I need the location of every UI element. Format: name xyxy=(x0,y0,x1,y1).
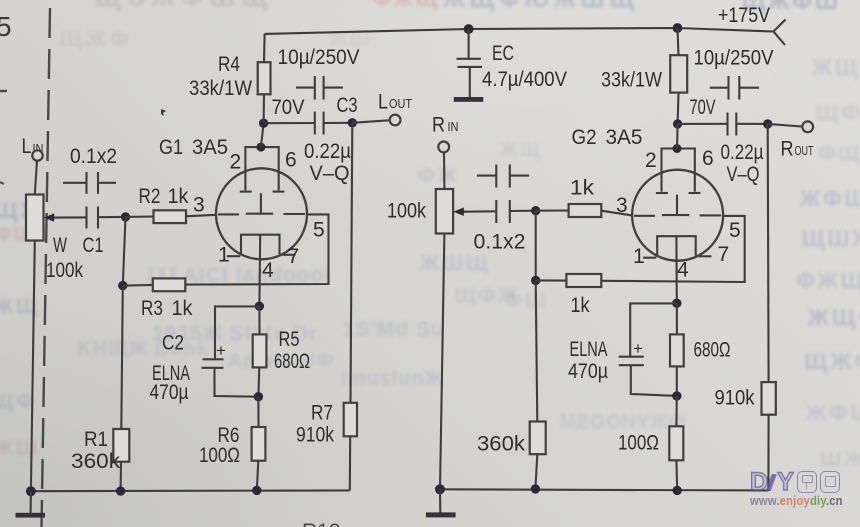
node D right xyxy=(672,391,681,400)
svg-text:1k: 1k xyxy=(172,297,193,320)
svg-text:L: L xyxy=(22,135,32,158)
node R OUT junction xyxy=(763,119,772,128)
resistor R1 360k xyxy=(71,428,129,473)
svg-text:OUT: OUT xyxy=(795,143,814,158)
terminal L OUT xyxy=(378,91,412,126)
node L OUT junction xyxy=(348,118,357,127)
svg-text:R3: R3 xyxy=(141,297,163,320)
svg-text:360k: 360k xyxy=(477,433,526,456)
svg-text:4.7µ/400V: 4.7µ/400V xyxy=(482,68,567,91)
ground bus left channel xyxy=(31,489,350,492)
svg-text:C2: C2 xyxy=(162,332,184,355)
svg-text:0.1x2: 0.1x2 xyxy=(474,231,526,254)
svg-text:680Ω: 680Ω xyxy=(274,350,310,373)
capacitor 10u/250V (upper, parallel with C3) xyxy=(278,46,360,100)
svg-text:5: 5 xyxy=(729,219,741,242)
svg-text:100k: 100k xyxy=(46,259,83,282)
node D (R5/R6/C2 junction) xyxy=(254,392,263,401)
svg-text:R: R xyxy=(432,114,445,137)
svg-text:G1: G1 xyxy=(159,136,183,159)
capacitor C2 ELNA 470u xyxy=(150,306,260,404)
svg-text:0.22µ: 0.22µ xyxy=(304,140,351,163)
wire node A down to node B xyxy=(123,217,126,286)
capacitor EC 4.7u/400V xyxy=(457,29,568,97)
ground symbol EC xyxy=(454,97,483,102)
terminal R IN xyxy=(432,114,459,153)
svg-text:ELNA: ELNA xyxy=(570,338,608,361)
resistor 100ohm right xyxy=(618,396,683,491)
ink speck xyxy=(161,109,166,116)
resistor R6 100ohm xyxy=(199,397,265,491)
svg-text:1k: 1k xyxy=(168,185,189,208)
svg-text:IN: IN xyxy=(448,119,459,134)
svg-text:R10: R10 xyxy=(302,520,341,527)
wire node B to R3 xyxy=(123,284,153,287)
wire node to 1k right xyxy=(536,209,569,211)
svg-text:100k: 100k xyxy=(387,200,426,223)
ground symbol right xyxy=(426,489,456,517)
svg-text:+: + xyxy=(633,339,643,358)
svg-text:V–Q: V–Q xyxy=(310,162,350,185)
svg-text:0.1x2: 0.1x2 xyxy=(70,145,117,168)
svg-text:3: 3 xyxy=(193,194,205,217)
node A (C1/R2/R3 junction) xyxy=(121,212,130,221)
wire potentiometer bottom to ground bus xyxy=(31,241,35,492)
resistor 360k right xyxy=(477,422,546,456)
stray margin mark xyxy=(0,90,7,93)
wire junction down to R7 xyxy=(351,123,353,403)
node A right xyxy=(531,206,540,215)
svg-text:1: 1 xyxy=(633,245,645,268)
terminal R OUT xyxy=(781,121,814,160)
svg-text:4: 4 xyxy=(677,259,689,282)
wire L IN to potentiometer xyxy=(35,161,37,195)
wire R IN to potentiometer right xyxy=(443,152,445,189)
node bus/360k right xyxy=(531,484,540,493)
svg-text:R7: R7 xyxy=(311,402,333,425)
node rail/EC xyxy=(464,24,474,34)
wire anode node to C3 xyxy=(264,122,315,124)
node B (R3 junction) xyxy=(118,281,127,290)
ground bus right channel xyxy=(440,489,768,490)
svg-text:910k: 910k xyxy=(715,387,755,410)
svg-text:0.22µ: 0.22µ xyxy=(721,141,764,164)
svg-text:7: 7 xyxy=(288,245,300,268)
wire cap to R OUT junction xyxy=(736,123,767,125)
svg-text:V–Q: V–Q xyxy=(727,163,760,186)
svg-text:C3: C3 xyxy=(337,94,358,117)
capacitor 0.22u V-Q right xyxy=(690,96,764,186)
wire potentiometer right bottom to ground bus xyxy=(440,234,444,490)
wire 1k lower to grid pin 5 riser right xyxy=(601,216,744,282)
resistor 33k/1W right xyxy=(601,28,687,124)
tube G1 3A5 envelope xyxy=(159,136,307,259)
capacitor ELNA 470u right xyxy=(568,303,677,396)
svg-text:5: 5 xyxy=(0,11,12,42)
dashed page cut line xyxy=(42,8,51,527)
resistor 1k right (grid stopper) xyxy=(569,177,602,218)
resistor 680ohm right xyxy=(670,303,731,396)
wire R OUT junction down to 910k xyxy=(767,124,770,382)
node C (filament tap / R5 / C2) xyxy=(255,302,264,311)
resistor R7 910k xyxy=(296,402,357,447)
svg-text:360k: 360k xyxy=(71,450,121,473)
svg-text:70V: 70V xyxy=(690,96,716,119)
node bus/pot right xyxy=(435,484,445,494)
svg-text:470µ: 470µ xyxy=(568,360,608,383)
svg-text:6: 6 xyxy=(285,149,297,172)
wire filament centre tap pin 4 down to cathode node xyxy=(258,235,261,307)
svg-text:R: R xyxy=(781,138,794,161)
wire node A to R2 xyxy=(126,215,154,217)
svg-text:R5: R5 xyxy=(279,328,300,351)
svg-text:33k/1W: 33k/1W xyxy=(601,69,662,92)
capacitor 10u/250V right (upper) xyxy=(694,47,774,100)
svg-text:70V: 70V xyxy=(272,96,305,119)
svg-text:1k: 1k xyxy=(570,177,595,200)
wire R2 to grid pin 3 xyxy=(186,215,216,217)
wire filament centre tap down to cathode node right xyxy=(675,236,677,303)
node bus/R6 xyxy=(252,486,261,495)
node rail/33k xyxy=(673,23,683,33)
svg-text:G2: G2 xyxy=(572,126,597,149)
svg-text:R4: R4 xyxy=(218,53,240,76)
svg-text:10µ/250V: 10µ/250V xyxy=(278,46,360,69)
wire node B right to 1k lower xyxy=(536,279,567,281)
resistor R3 1k xyxy=(141,278,193,320)
svg-text:EC: EC xyxy=(492,42,514,65)
node anode/coupling junction xyxy=(259,119,268,128)
terminal L IN xyxy=(22,135,44,161)
anode bracket pins 2,6 right xyxy=(645,147,714,193)
svg-text:4: 4 xyxy=(262,259,274,282)
resistor 1k right (grid leak) xyxy=(566,274,601,317)
filament pins 1,7,4 right xyxy=(633,236,729,281)
node anode junction right xyxy=(673,119,682,128)
wire C3 to output junction xyxy=(324,122,353,124)
tube G2 3A5 envelope xyxy=(572,126,724,261)
capacitor 0.1x2 right (lower unit, in signal path) xyxy=(464,200,536,254)
potentiometer W 100k xyxy=(26,195,83,283)
filament pins 1,7,4 xyxy=(218,235,299,282)
svg-text:680Ω: 680Ω xyxy=(694,339,731,362)
svg-text:6: 6 xyxy=(702,147,714,170)
node B right xyxy=(531,276,540,285)
svg-text:2: 2 xyxy=(230,151,242,174)
node bus/100ohm right xyxy=(673,486,682,495)
svg-text:W: W xyxy=(53,234,67,257)
wire 1k to grid pin 3 right xyxy=(601,211,632,216)
svg-text:10µ/250V: 10µ/250V xyxy=(694,47,774,70)
ground symbol left xyxy=(16,491,46,517)
grid structure right (dashed) with stub xyxy=(634,195,721,216)
potentiometer 100k right xyxy=(387,189,466,234)
svg-text:470µ: 470µ xyxy=(150,381,189,404)
svg-text:100Ω: 100Ω xyxy=(199,444,240,467)
svg-text:910k: 910k xyxy=(296,424,334,447)
svg-text:C1: C1 xyxy=(83,234,104,257)
wire R7 to ground bus xyxy=(349,436,352,490)
wire 360k to ground bus right xyxy=(535,454,537,489)
resistor R5 680ohm xyxy=(253,306,310,397)
wire junction to L OUT terminal xyxy=(352,120,389,123)
+175V power rail xyxy=(265,4,786,45)
capacitor 0.1x2 right (upper unit) xyxy=(477,165,529,188)
svg-text:2: 2 xyxy=(645,149,657,172)
resistor R4 33k/1W xyxy=(189,34,271,123)
capacitor C1 0.1x2 (lower unit, in signal path) xyxy=(54,145,126,257)
capacitor C3 0.22u V-Q xyxy=(272,94,358,185)
svg-text:+175V: +175V xyxy=(718,4,770,27)
node bus/pot xyxy=(26,486,36,496)
svg-text:33k/1W: 33k/1W xyxy=(189,77,252,100)
wire R3 to grid pin 5 riser xyxy=(185,214,328,284)
wire R1 to ground bus xyxy=(120,462,123,491)
svg-text:3: 3 xyxy=(616,194,628,217)
svg-text:OUT: OUT xyxy=(389,96,412,111)
svg-text:7: 7 xyxy=(718,243,730,266)
wire bracket to anode node right xyxy=(676,124,679,149)
wire bracket to anode node xyxy=(261,123,264,147)
wire node B down to R1 xyxy=(121,286,123,429)
watermark logo DIY leyuan xyxy=(750,471,860,509)
svg-text:L: L xyxy=(378,91,388,114)
svg-text:100Ω: 100Ω xyxy=(618,432,659,455)
anode bracket pins 2,6 xyxy=(230,147,297,192)
wire anode node to coupling cap right xyxy=(678,123,728,125)
svg-text:R1: R1 xyxy=(84,428,108,451)
wire node A right down to node B right xyxy=(535,211,537,281)
wire junction to R OUT terminal xyxy=(768,124,802,127)
svg-text:5: 5 xyxy=(313,219,325,242)
capacitor C1 0.1x2 (upper unit) xyxy=(63,172,116,194)
wire node B right down to 360k xyxy=(536,280,538,421)
svg-text:1k: 1k xyxy=(571,294,590,317)
svg-text:+: + xyxy=(216,341,226,360)
svg-text:R2: R2 xyxy=(139,185,161,208)
node on anode bracket xyxy=(256,143,265,152)
resistor R2 1k xyxy=(139,185,189,223)
grid structure (dashed) with stub xyxy=(218,193,305,214)
svg-text:3A5: 3A5 xyxy=(606,126,643,149)
resistor 910k right xyxy=(715,382,776,490)
svg-text:1: 1 xyxy=(218,244,230,267)
node C right xyxy=(672,299,681,308)
node bus/R1 xyxy=(116,486,125,495)
svg-text:3A5: 3A5 xyxy=(192,136,228,159)
node on anode bracket right xyxy=(673,144,682,153)
